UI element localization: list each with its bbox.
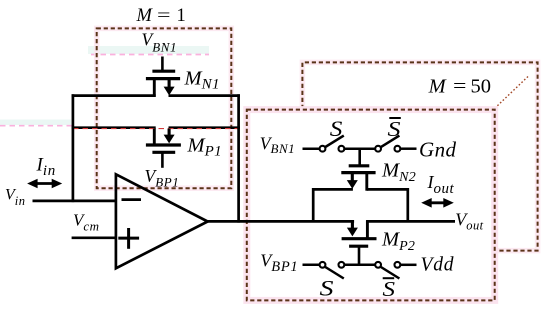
wire rail2 left <box>72 126 156 129</box>
wire between switches top <box>345 147 376 150</box>
svg-text:S: S <box>320 276 334 301</box>
current arrow I_in <box>27 179 62 189</box>
switch S1 <box>320 136 345 152</box>
wire to Gnd <box>401 147 417 150</box>
current arrow I_out <box>421 198 454 208</box>
label S-bar bottom-right <box>383 277 396 301</box>
op-amp U1 <box>116 174 208 268</box>
artifact pink dashed line upper <box>88 46 209 55</box>
wire rail1 right <box>169 94 240 97</box>
svg-text:S: S <box>388 117 401 141</box>
wire M_N2 staple left <box>313 189 353 222</box>
svg-text:Vin: Vin <box>5 187 26 209</box>
switch S3 <box>320 262 345 279</box>
svg-text:Gnd: Gnd <box>419 138 456 162</box>
wire to switch S3 <box>303 264 320 267</box>
wire V_in <box>33 200 116 203</box>
wire to switch S1 <box>303 147 320 150</box>
inner box M=50 <box>247 110 495 301</box>
box M=1 <box>97 28 232 188</box>
artifact red dashes on rail2 <box>73 128 238 130</box>
svg-text:VBP1: VBP1 <box>145 166 180 189</box>
switch S2 (S-bar) <box>375 136 400 152</box>
svg-text:S: S <box>383 277 396 301</box>
label S-bar top-right <box>388 117 401 141</box>
svg-text:Iin: Iin <box>36 154 57 179</box>
transistor M_N1 <box>146 57 180 97</box>
wire to Vdd <box>401 264 417 267</box>
wire rail2 right <box>169 126 240 129</box>
svg-text:Vcm: Vcm <box>73 211 100 234</box>
svg-text:MN1: MN1 <box>184 68 220 93</box>
wire op-amp output to M_P2 arrow <box>205 220 354 223</box>
switch S4 (S-bar) <box>375 262 400 279</box>
svg-text:Vdd: Vdd <box>421 255 455 276</box>
wire rail1 left <box>72 94 156 97</box>
wire output right segment to V_out <box>366 220 455 223</box>
wire between switches bottom <box>345 264 376 267</box>
transistor M_P2 <box>342 220 377 264</box>
wire left vertical <box>72 94 75 202</box>
transistor M_P1 <box>146 129 181 168</box>
svg-text:S: S <box>330 116 343 141</box>
wire feedback vertical <box>237 94 240 222</box>
wire M_N2 staple right <box>367 189 408 222</box>
svg-text:MP1: MP1 <box>187 135 223 160</box>
transistor M_N2 <box>341 149 375 191</box>
svg-text:M=50: M=50 <box>428 75 491 97</box>
wire V_cm <box>72 236 116 239</box>
artifact pink dashed line mid <box>0 120 72 126</box>
outer box M=50 <box>302 62 537 250</box>
svg-text:M=1: M=1 <box>136 5 186 26</box>
